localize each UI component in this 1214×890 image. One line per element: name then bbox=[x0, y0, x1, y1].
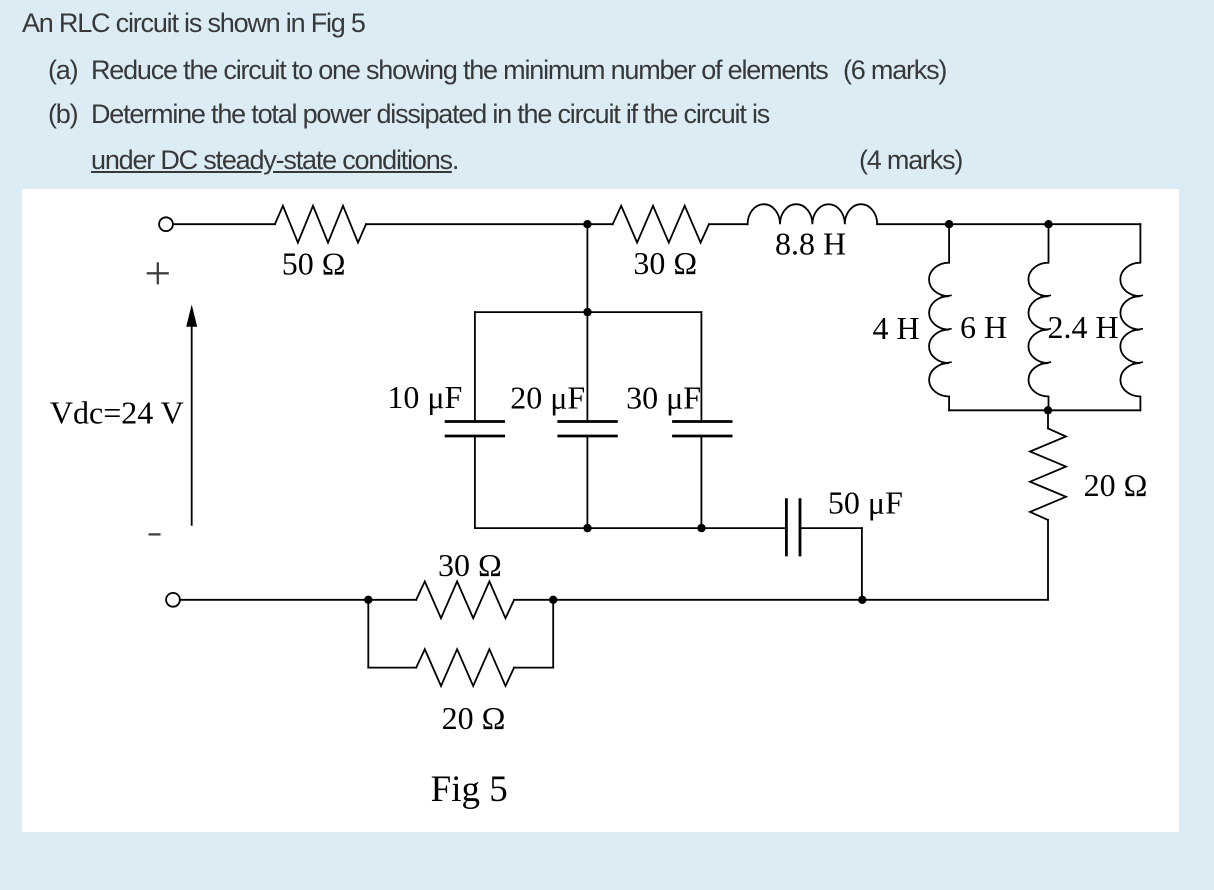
svg-text:4 H: 4 H bbox=[872, 310, 919, 346]
wire top mid-left bbox=[366, 223, 587, 225]
junction coil bottom node bbox=[1044, 406, 1052, 414]
wire cap-box top rail bbox=[475, 311, 702, 313]
svg-text:50 μF: 50 μF bbox=[828, 485, 903, 521]
junction bottom pair right bbox=[549, 596, 557, 604]
junction top of 6H bbox=[1044, 220, 1052, 228]
svg-text:30 μF: 30 μF bbox=[626, 379, 701, 415]
inductor 6H bbox=[1028, 224, 1048, 410]
resistor 20Ω (right, vertical) bbox=[1030, 428, 1066, 520]
capacitor 10µF plates bbox=[446, 422, 504, 437]
wire bbox=[514, 599, 553, 601]
inductor 2.4H bbox=[1120, 224, 1140, 410]
svg-text:8.8 H: 8.8 H bbox=[775, 226, 846, 262]
inductor 4H bbox=[929, 224, 949, 410]
wire bbox=[587, 223, 612, 225]
wire down to bottom rail bbox=[1047, 520, 1049, 600]
capacitor 50µF plates bbox=[786, 500, 800, 555]
wire loop right bbox=[552, 600, 554, 668]
resistor 30Ω (bottom pair, upper) bbox=[416, 581, 514, 618]
junction cap-box bottom mid bbox=[583, 524, 591, 532]
wire 50µF to corner bbox=[800, 527, 862, 529]
svg-text:Vdc=24 V: Vdc=24 V bbox=[50, 395, 184, 431]
capacitor 20µF plates bbox=[559, 422, 617, 437]
wire bbox=[368, 667, 416, 669]
wire 10µF branch lower bbox=[474, 437, 476, 528]
wire 50µF branch down bbox=[861, 528, 863, 600]
wire 10µF branch upper bbox=[474, 312, 476, 420]
wire 30µF branch lower bbox=[700, 437, 702, 528]
svg-text:Fig 5: Fig 5 bbox=[431, 769, 508, 810]
wire top-right bbox=[877, 223, 1140, 225]
wire 20µF branch upper bbox=[586, 312, 588, 420]
wire cap-box bottom rail bbox=[475, 527, 787, 529]
wire loop left bbox=[367, 600, 369, 668]
terminal T2 (- input) bbox=[166, 593, 180, 607]
svg-text:50 Ω: 50 Ω bbox=[282, 246, 346, 282]
wire 30µF branch upper bbox=[700, 312, 702, 420]
junction cap-box bottom right bbox=[697, 524, 705, 532]
junction 50µF branch bottom bbox=[858, 596, 866, 604]
junction bottom pair left bbox=[364, 596, 372, 604]
junction cap-box top bbox=[583, 308, 591, 316]
voltage source arrow Vdc=24V bbox=[191, 324, 193, 525]
wire bottom-left bbox=[180, 599, 369, 601]
label + polarity bbox=[148, 263, 168, 283]
capacitor 30µF plates bbox=[674, 422, 732, 437]
wire bbox=[368, 599, 416, 601]
svg-text:2.4 H: 2.4 H bbox=[1047, 309, 1118, 345]
svg-text:20 Ω: 20 Ω bbox=[1084, 467, 1148, 503]
junction top node A bbox=[583, 220, 591, 228]
inductor 8.8H bbox=[748, 204, 878, 224]
wire node A down bbox=[586, 224, 588, 312]
svg-text:10 μF: 10 μF bbox=[387, 379, 462, 415]
junction top of 4H bbox=[945, 220, 953, 228]
wire coil bottom rail bbox=[949, 409, 1140, 411]
wire 20µF branch lower bbox=[586, 437, 588, 528]
wire bbox=[709, 223, 748, 225]
resistor 50Ω bbox=[275, 206, 366, 243]
svg-text:20 Ω: 20 Ω bbox=[442, 700, 506, 736]
svg-text:30 Ω: 30 Ω bbox=[438, 547, 502, 583]
wire bottom mid bbox=[553, 599, 862, 601]
wire bbox=[514, 667, 553, 669]
resistor 20Ω (bottom pair, lower) bbox=[416, 649, 514, 686]
svg-text:20 μF: 20 μF bbox=[510, 379, 585, 415]
wire top-left bbox=[173, 223, 275, 225]
wire bbox=[1047, 410, 1049, 428]
terminal T1 (+ input) bbox=[159, 217, 173, 231]
wire bottom right bbox=[862, 599, 1048, 601]
svg-text:30 Ω: 30 Ω bbox=[633, 245, 697, 281]
resistor 30Ω (top) bbox=[613, 206, 709, 243]
coil cusp ticks bbox=[942, 295, 1143, 364]
label - polarity bbox=[150, 533, 160, 535]
svg-text:6 H: 6 H bbox=[960, 309, 1007, 345]
